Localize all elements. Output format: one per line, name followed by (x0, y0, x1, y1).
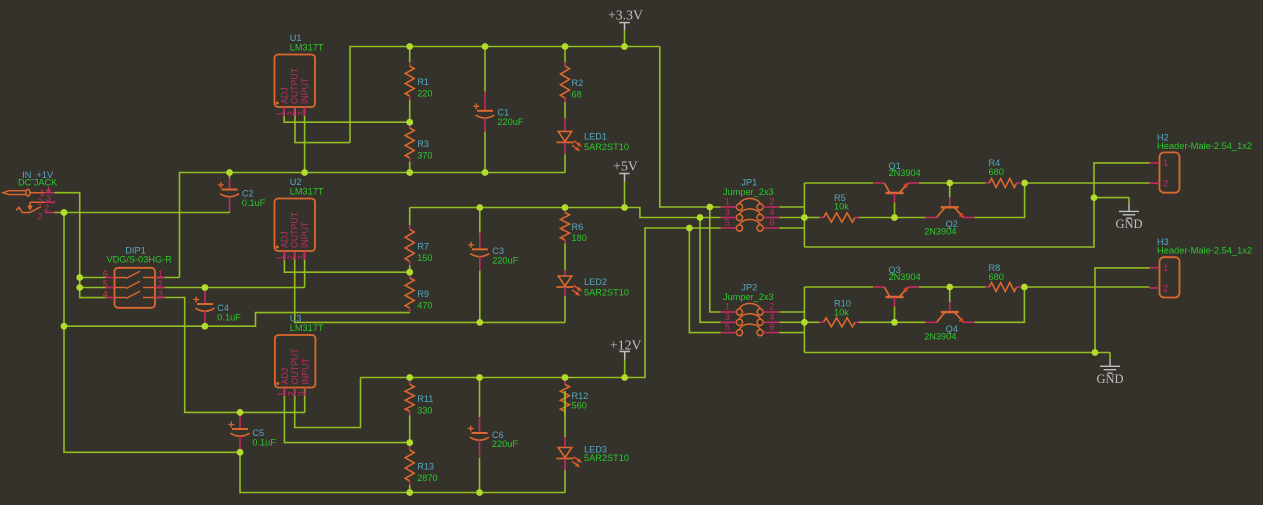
svg-text:ADJ: ADJ (280, 368, 290, 385)
svg-text:4: 4 (103, 289, 108, 299)
svg-text:220uF: 220uF (497, 117, 523, 127)
wire U1 ADJ line (284, 107, 410, 122)
svg-text:INPUT: INPUT (300, 357, 310, 384)
svg-text:JP2: JP2 (741, 282, 757, 292)
wire JP1 row3 to JP2 row3 (689, 228, 720, 333)
jumper JP2 pin numbers (725, 302, 775, 333)
wire jack pin2 to C2 bottom (54, 212, 229, 214)
svg-text:6: 6 (103, 269, 108, 279)
junction dot JP1 bus (801, 214, 808, 221)
LED3 top pin (564, 391, 566, 437)
DIP1 pin numbers (103, 269, 163, 299)
junction dot Q3 base (891, 319, 898, 326)
resistor R2 (561, 47, 570, 103)
svg-text:330: 330 (417, 405, 432, 415)
wire +3.3V rail down to JP1 row1 (660, 47, 721, 208)
svg-text:3: 3 (46, 193, 51, 203)
capacitor C6 (468, 378, 489, 493)
wire Q3 emitter to Q4 base node (919, 286, 985, 288)
transistor Q1 (873, 183, 919, 218)
svg-text:2: 2 (286, 391, 296, 396)
svg-text:OUTPUT: OUTPUT (290, 211, 300, 248)
svg-text:Header-Male-2.54_1x2: Header-Male-2.54_1x2 (1157, 141, 1252, 151)
resistor R4 (985, 179, 1021, 188)
wire Q1 emitter to Q2 base node (919, 182, 985, 184)
junction dot U2 ADJ/R7/R9 node (406, 269, 413, 276)
svg-text:0.1uF: 0.1uF (217, 312, 241, 322)
wire U2 ADJ line (284, 251, 409, 272)
wire U1 IN down (304, 107, 306, 173)
svg-text:R13: R13 (417, 462, 434, 472)
svg-text:1: 1 (158, 269, 163, 279)
wire JP1 row1 to JP2 row1 (710, 207, 721, 312)
svg-text:Jumper_2x3: Jumper_2x3 (723, 187, 774, 197)
svg-text:R1: R1 (417, 77, 429, 87)
wire U1 output top rail (350, 47, 660, 143)
svg-text:1: 1 (1163, 263, 1168, 274)
power flag +3.3V symbol (619, 23, 629, 47)
svg-text:R9: R9 (417, 289, 429, 299)
svg-text:5: 5 (725, 322, 730, 332)
resistor R7 (405, 219, 414, 272)
resistor R1 (405, 47, 414, 123)
svg-text:2870: 2870 (417, 473, 437, 483)
wire JP1 row2 to JP2 row2 (700, 218, 721, 323)
LED1 bottom pin (564, 142, 566, 154)
wire Q4 emitter up to R8 node (975, 287, 1025, 322)
svg-text:LM317T: LM317T (290, 43, 324, 53)
wire DIP pin6 tap (80, 277, 106, 279)
svg-text:3: 3 (725, 207, 730, 217)
svg-text:LM317T: LM317T (290, 323, 324, 333)
junction dot H3 gnd node (1092, 349, 1099, 356)
wire U2 IN down (304, 251, 306, 288)
svg-text:1: 1 (725, 197, 730, 207)
svg-text:470: 470 (417, 301, 432, 311)
svg-text:0.1uF: 0.1uF (252, 437, 276, 447)
wire gnd line to R9/C4 (64, 313, 410, 327)
op-amp-style regulator box U3 (275, 335, 316, 396)
svg-text:2N3904: 2N3904 (924, 331, 956, 341)
svg-text:GND: GND (1096, 372, 1123, 386)
svg-text:2N3904: 2N3904 (889, 168, 921, 178)
resistor R11 (405, 378, 414, 443)
junction dots bottom gnd rail (406, 489, 483, 496)
svg-text:2N3904: 2N3904 (924, 226, 956, 236)
LED1 top pin (564, 103, 566, 118)
svg-text:R2: R2 (572, 78, 584, 88)
svg-text:3: 3 (158, 289, 163, 299)
power flag +12V symbol (620, 352, 630, 378)
wire DIP pin5 tap (80, 287, 106, 289)
wire DIP pin1 up to input rail (155, 277, 180, 279)
ground symbol near H2 (1119, 198, 1139, 219)
resistor R3 (405, 122, 414, 172)
transistor Q4 (925, 287, 974, 323)
wire DIP pin3 down to U3 IN line (155, 298, 305, 413)
svg-text:INPUT: INPUT (300, 221, 310, 248)
svg-text:680: 680 (989, 272, 1004, 282)
svg-text:5AR2ST10: 5AR2ST10 (584, 288, 629, 298)
power flag +5V symbol (619, 174, 629, 208)
capacitor C2 (218, 173, 239, 213)
svg-text:2: 2 (1163, 283, 1168, 294)
resistor R6 (561, 208, 570, 245)
svg-text:2: 2 (770, 302, 775, 312)
svg-text:150: 150 (417, 253, 432, 263)
LED LED2 (556, 276, 582, 296)
wire ground bus left (64, 213, 240, 453)
svg-text:3: 3 (297, 391, 307, 396)
svg-text:2: 2 (1163, 179, 1168, 190)
wire JP2 bottom gnd rail (804, 352, 1110, 354)
svg-text:R6: R6 (572, 222, 584, 232)
svg-text:220uF: 220uF (492, 256, 518, 266)
wire JP2 output bus (780, 287, 805, 353)
svg-text:+5V: +5V (613, 159, 638, 174)
junction dots gnd line mid (61, 323, 209, 330)
connector J1 DC jack symbol (3, 187, 55, 213)
svg-text:DC JACK: DC JACK (18, 178, 58, 188)
svg-text:68: 68 (572, 90, 582, 100)
wire U1 OUT down-right (295, 107, 350, 143)
junction dots rail +5V (476, 204, 627, 211)
svg-text:5: 5 (725, 218, 730, 228)
header H2 symbol (1150, 152, 1180, 192)
svg-text:LED1: LED1 (584, 132, 607, 142)
wire R10 line (804, 321, 819, 323)
svg-text:+12V: +12V (610, 337, 642, 352)
header H3 pin numbers (1163, 263, 1168, 294)
svg-text:INPUT: INPUT (300, 77, 310, 104)
wire JP1 output bus (780, 183, 805, 247)
wire R4 node to H2 pin2 (1025, 182, 1150, 184)
svg-text:2: 2 (44, 203, 49, 213)
svg-text:LM317T: LM317T (290, 187, 324, 197)
svg-text:OUTPUT: OUTPUT (290, 67, 300, 104)
junction dots input rail (226, 169, 488, 176)
junction dot Q4 base (946, 284, 953, 291)
svg-text:680: 680 (989, 167, 1004, 177)
svg-text:U2: U2 (290, 177, 302, 187)
transistor Q2 (925, 183, 974, 218)
ground symbol near H3 (1100, 353, 1120, 374)
svg-text:5AR2ST10: 5AR2ST10 (584, 142, 629, 152)
wire Q1 collector feed (804, 182, 873, 184)
junction dots JP1 left taps (686, 204, 713, 232)
wire R8 node to H3 pin2 (1024, 286, 1149, 288)
LED3 bottom pin (564, 459, 566, 471)
svg-text:0.1uF: 0.1uF (242, 198, 266, 208)
svg-text:+3.3V: +3.3V (608, 8, 643, 23)
svg-text:R11: R11 (417, 394, 433, 404)
junction dot R4 output (1021, 180, 1028, 187)
junction dot C3 bottom (476, 319, 483, 326)
wire H3 pin1 vertical (1095, 268, 1150, 353)
capacitor C5 (228, 412, 249, 452)
svg-text:2: 2 (158, 279, 163, 289)
junction dot JP2 bus (801, 319, 808, 326)
junction dot U1 ADJ/R1/R3 node (406, 119, 413, 126)
junction dot C4 top (202, 284, 209, 291)
svg-text:1: 1 (276, 391, 286, 396)
svg-text:560: 560 (572, 401, 587, 411)
svg-text:1: 1 (1163, 158, 1168, 169)
svg-text:ADJ: ADJ (279, 231, 289, 248)
wire DIP pin2 to U2 IN (155, 287, 305, 289)
wire U2 OUT to bottom rail (295, 251, 565, 322)
svg-text:VDG/S-03HG-R: VDG/S-03HG-R (107, 255, 173, 265)
wire R5 to Q1 base to Q2 (859, 217, 926, 219)
junction dot R8 output (1021, 284, 1028, 291)
resistor R9 (405, 272, 414, 312)
wire C5 gnd down to bottom rail (240, 452, 565, 492)
wire rail input U1 (172.5) (180, 173, 566, 278)
wire rail +5V (207.5) (410, 208, 721, 220)
wire R10 to Q3 base to Q4 (859, 321, 926, 323)
capacitor C1 (473, 47, 494, 173)
capacitor C3 (468, 208, 489, 323)
junction dot C5 bottom (237, 449, 244, 456)
svg-text:10k: 10k (834, 202, 849, 212)
wire H2 pin1 gnd vertical (804, 163, 1149, 247)
wire rail +12V (377.5) (361, 228, 721, 378)
svg-text:10k: 10k (834, 308, 849, 318)
svg-text:GND: GND (1115, 217, 1142, 231)
LED2 bottom pin (564, 287, 566, 296)
junction dots rail +3.3V (406, 43, 628, 50)
resistor R10 (820, 318, 860, 327)
svg-text:4: 4 (770, 312, 775, 322)
svg-text:ADJ: ADJ (279, 87, 289, 104)
wire jack pin1 to DIP feed bus (54, 193, 105, 298)
svg-text:R3: R3 (417, 139, 429, 149)
svg-text:JP1: JP1 (741, 177, 757, 187)
wire R5 line (804, 217, 819, 219)
svg-text:Jumper_2x3: Jumper_2x3 (723, 292, 774, 302)
svg-text:R12: R12 (572, 391, 589, 401)
svg-text:2N3904: 2N3904 (889, 272, 921, 282)
wire U3 OUT up to +12V rail (295, 378, 361, 428)
op-amp-style regulator box U2 (275, 199, 316, 260)
svg-text:5: 5 (103, 279, 108, 289)
svg-text:1: 1 (276, 111, 286, 116)
LED LED3 (556, 448, 582, 468)
header H3 symbol (1150, 257, 1180, 297)
svg-text:4: 4 (770, 207, 775, 217)
svg-text:Header-Male-2.54_1x2: Header-Male-2.54_1x2 (1157, 246, 1252, 256)
LED2 top pin (564, 244, 566, 271)
capacitor C4 (193, 288, 214, 327)
header H2 pin numbers (1163, 158, 1168, 189)
wire U3 IN down (304, 388, 306, 413)
svg-text:5AR2ST10: 5AR2ST10 (584, 453, 629, 463)
DIP switch DIP1 symbol (106, 268, 165, 308)
svg-text:2: 2 (286, 255, 296, 260)
junction dot Q1 base (891, 214, 898, 221)
resistor R12 (561, 378, 570, 416)
svg-text:1: 1 (276, 255, 286, 260)
svg-text:3: 3 (725, 312, 730, 322)
junction dot H2 gnd node (1091, 194, 1098, 201)
transistor Q3 (873, 287, 919, 322)
svg-text:370: 370 (417, 151, 432, 161)
svg-text:6: 6 (770, 218, 775, 228)
svg-text:1: 1 (725, 302, 730, 312)
svg-text:6: 6 (770, 322, 775, 332)
svg-text:R7: R7 (417, 241, 429, 251)
resistor R13 (405, 443, 414, 493)
svg-text:2: 2 (286, 111, 296, 116)
wire gnd branch H2 (1094, 197, 1129, 199)
junction dot Q2 base (946, 180, 953, 187)
junction dots rail +12V (406, 374, 628, 381)
svg-text:3: 3 (38, 197, 43, 207)
svg-text:LED2: LED2 (584, 277, 607, 287)
op-amp-style regulator box U1 (275, 55, 316, 116)
jumper JP2 symbol (721, 303, 780, 335)
svg-text:180: 180 (572, 233, 587, 243)
svg-text:U1: U1 (290, 33, 302, 43)
junction dots DIP feed bus (76, 274, 83, 291)
svg-text:3: 3 (296, 255, 306, 260)
LED LED1 (556, 131, 582, 151)
jumper JP1 pin numbers (725, 197, 775, 228)
resistor R8 (985, 283, 1021, 292)
junction dot U3 ADJ/R11/R13 node (406, 439, 413, 446)
wire Q3 collector feed (804, 286, 873, 288)
jumper JP1 symbol (721, 198, 780, 231)
svg-text:U3: U3 (290, 314, 302, 324)
wire U3 ADJ line (284, 388, 409, 443)
svg-text:2: 2 (770, 197, 775, 207)
svg-text:2: 2 (38, 211, 43, 221)
wire Q2 emitter up to R4 node (975, 183, 1025, 218)
resistor R5 (820, 213, 860, 222)
svg-text:220uF: 220uF (492, 439, 518, 449)
svg-text:3: 3 (296, 111, 306, 116)
svg-text:OUTPUT: OUTPUT (290, 348, 300, 385)
junction dots U3 input line (237, 409, 244, 416)
junction dot jack pin2 node (61, 209, 68, 216)
svg-text:220: 220 (417, 89, 432, 99)
